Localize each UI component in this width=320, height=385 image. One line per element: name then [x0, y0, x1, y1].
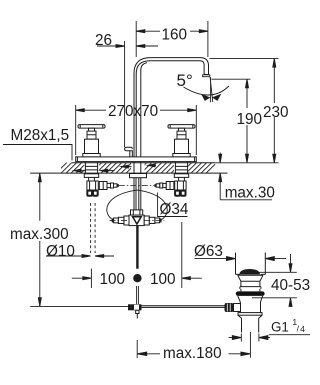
tee left nut [124, 216, 129, 225]
right valve shank through counter [175, 162, 187, 174]
ext line spout right [207, 21, 209, 57]
svg-text:40-53: 40-53 [271, 277, 310, 294]
waste mid body [241, 281, 260, 286]
svg-text:270x70: 270x70 [108, 103, 158, 120]
G1 1/4 dimension [229, 335, 311, 338]
left valve check-valve nipple [99, 182, 107, 190]
dim 270x70 [76, 109, 197, 111]
ext lines 270x70 [76, 105, 197, 155]
svg-text:230: 230 [263, 104, 289, 121]
ext line rod knob [124, 41, 126, 147]
handle left cross bar [78, 125, 105, 129]
tee centerline over nipples [110, 219, 165, 221]
ext line spout outlet [212, 78, 251, 80]
Ø63 leader and arrows [195, 258, 287, 260]
pop-up rod below tee [136, 225, 138, 268]
ext line spout top [210, 58, 279, 60]
left valve clamp nut [84, 174, 98, 178]
deck arrows [76, 165, 156, 170]
svg-text:max.300: max.300 [10, 226, 69, 243]
handle left post [89, 128, 95, 131]
tee centerline [110, 219, 165, 221]
hose balloon [107, 190, 167, 220]
linkage bar [142, 306, 226, 308]
svg-text:100: 100 [150, 271, 176, 288]
handle right body [175, 139, 189, 153]
dim 230 [273, 59, 275, 163]
dim max.180 [142, 353, 247, 355]
tee right nut [144, 216, 149, 225]
5 degree detail lines [210, 77, 213, 102]
left valve bottom ports [87, 191, 97, 196]
spout inner contour [136, 61, 204, 157]
center shank tube below deck [134, 162, 141, 211]
handle right base [173, 154, 190, 157]
ext line right valve [181, 222, 183, 288]
countertop top edge [72, 162, 215, 164]
waste lower body [238, 296, 263, 302]
waste gasket [236, 291, 265, 296]
dim 160 [136, 30, 208, 32]
svg-text:Ø34: Ø34 [160, 201, 189, 218]
left valve shank through counter [85, 162, 97, 174]
tee body [129, 215, 144, 226]
tee left nipple [118, 217, 124, 223]
max.300 dimension [39, 173, 41, 306]
svg-text:190: 190 [237, 111, 263, 128]
deck plate 270x70 [76, 157, 197, 162]
waste axis extension line [249, 332, 251, 358]
waste plug cup walls [236, 253, 266, 275]
svg-text:max.30: max.30 [225, 185, 275, 202]
svg-text:M28x1,5: M28x1,5 [11, 127, 70, 144]
right valve body [175, 181, 186, 190]
svg-text:max.180: max.180 [163, 345, 222, 362]
right valve check-valve nipple [166, 182, 174, 190]
left valve body [87, 181, 98, 190]
waste assembly [225, 253, 266, 358]
handle left stem [87, 131, 96, 139]
svg-text:Ø10: Ø10 [46, 243, 75, 260]
svg-text:Ø63: Ø63 [194, 243, 223, 260]
handle left body [85, 139, 99, 153]
max.30 dimension [220, 153, 272, 200]
dim 26 [97, 45, 158, 47]
right valve neck [179, 177, 185, 181]
Ø10 dimension [46, 255, 114, 257]
spout outer contour [134, 58, 209, 157]
pull-rod knob above deck [125, 147, 133, 157]
ext line mounting surface right [215, 162, 278, 164]
handle right cross bar [168, 125, 195, 129]
svg-text:G1: G1 [271, 319, 289, 334]
spout outlet face [204, 73, 208, 76]
Ø34 leader [158, 193, 188, 217]
waste cup bottom edges [236, 273, 266, 275]
svg-text:4: 4 [300, 324, 305, 334]
spout aerator nub [203, 75, 210, 77]
tee top hex nut [131, 210, 143, 215]
waste bottom flange [238, 313, 262, 316]
svg-text:160: 160 [162, 27, 188, 44]
left valve neck [89, 177, 95, 181]
ext line spout left [135, 21, 137, 57]
ext tick left valve [90, 269, 92, 289]
dim 190 [246, 79, 248, 163]
waste drain pipe G1 1/4 [242, 318, 259, 332]
linkage extension line left [30, 305, 128, 307]
upper connection centerline [119, 184, 154, 186]
handle left base [83, 154, 100, 157]
handle right post [179, 128, 185, 131]
waste seat cone [238, 275, 263, 281]
svg-text:5°: 5° [177, 71, 193, 90]
spout riser right wall [141, 63, 147, 157]
pop-up rod lower section [137, 286, 139, 304]
dash-dot centerlines [110, 185, 165, 220]
countertop hatching [56, 163, 217, 174]
M28x1,5 leader [3, 145, 72, 161]
dim 40-53 [252, 272, 297, 298]
handle right stem [177, 131, 186, 139]
waste lever ball joint [225, 303, 234, 312]
5 degree arc [184, 86, 230, 95]
center clamp nut [130, 174, 147, 178]
svg-text:100: 100 [100, 271, 126, 288]
right valve bottom ports [175, 191, 185, 196]
countertop bottom edge with left extension [30, 172, 227, 174]
waste plug dome seal [240, 270, 260, 275]
rod clamp [128, 304, 142, 310]
tee right nipple [149, 217, 155, 223]
right valve clamp nut [174, 174, 188, 178]
node center dot [133, 274, 141, 282]
dim 100 100 [72, 277, 202, 279]
Ø10 dashed pipe lines [91, 203, 96, 253]
svg-text:26: 26 [95, 32, 112, 49]
tee funnel [133, 217, 142, 224]
